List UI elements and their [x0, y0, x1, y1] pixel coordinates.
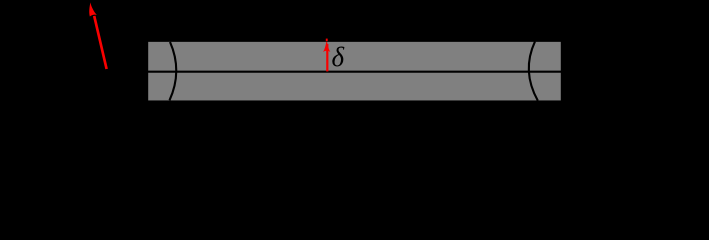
left end arc: [170, 42, 177, 100]
svg-text:δ: δ: [332, 42, 345, 72]
arrow delta tip above wall line: [326, 39, 328, 42]
right end arc: [529, 41, 538, 100]
arrow delta shaft: [326, 44, 328, 71]
arrow delta head (red, under wall line): [323, 38, 330, 52]
centerline: [146, 71, 563, 73]
tube body fill: [147, 41, 562, 102]
arrow top-left (red): [89, 2, 108, 69]
tube outline: [147, 41, 562, 102]
